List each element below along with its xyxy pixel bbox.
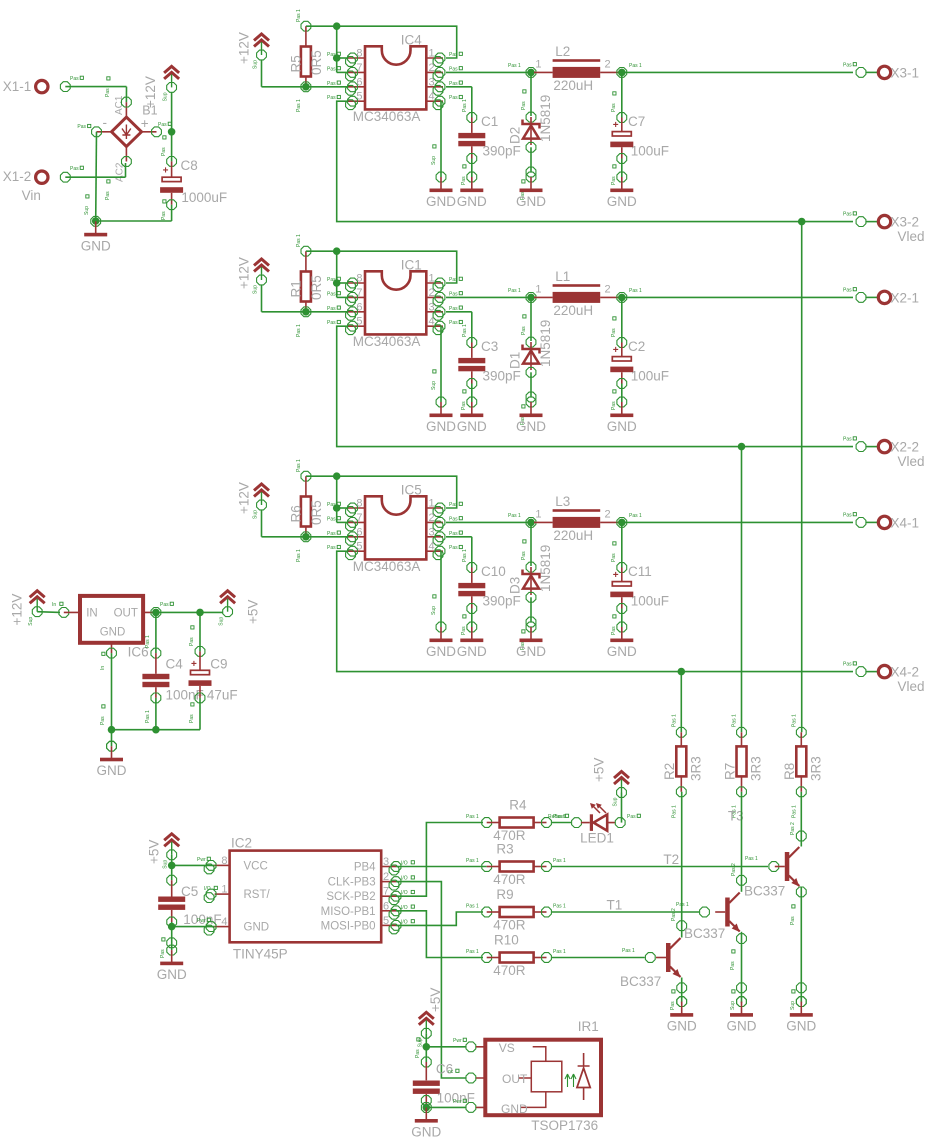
pin circle IC6 IN	[59, 608, 69, 618]
resistor R1	[301, 272, 311, 302]
svg-text:X3-2: X3-2	[891, 215, 920, 230]
svg-text:L3: L3	[555, 494, 570, 509]
svg-text:Pas: Pas	[611, 553, 617, 562]
wire gnd across	[96, 220, 172, 222]
svg-text:Pas: Pas	[449, 502, 458, 508]
pin circle D1 cathode	[526, 337, 536, 347]
pin circle B1 AC2	[122, 157, 132, 167]
svg-text:D2: D2	[508, 127, 523, 144]
svg-text:+12V: +12V	[10, 594, 25, 626]
svg-text:C3: C3	[481, 339, 498, 354]
svg-text:D3: D3	[508, 577, 523, 594]
svg-text:4: 4	[429, 541, 435, 553]
svg-text:GND: GND	[457, 419, 487, 434]
svg-text:Pwr: Pwr	[453, 1038, 462, 1044]
supply arrow +12V IC5 block	[253, 484, 270, 519]
svg-text:Pas: Pas	[100, 716, 106, 725]
resistor R5	[301, 47, 311, 77]
svg-text:Pas: Pas	[843, 437, 852, 443]
junction VS node	[423, 1043, 431, 1051]
wire OUT to +5V	[156, 611, 223, 613]
svg-text:Pas 1: Pas 1	[296, 324, 302, 337]
pin 8 of IC5	[348, 507, 365, 509]
transistor BC337 left	[656, 938, 681, 978]
svg-text:X3-1: X3-1	[891, 66, 920, 81]
ground pin4	[426, 397, 456, 434]
pin circle IC6 gnd symbol	[107, 741, 117, 751]
svg-text:Pas: Pas	[521, 101, 527, 110]
svg-text:2: 2	[605, 284, 611, 296]
svg-text:I/O: I/O	[401, 861, 408, 867]
svg-text:2: 2	[605, 59, 611, 71]
svg-text:Pas: Pas	[449, 545, 458, 551]
pin circle R2 bottom	[676, 787, 686, 797]
pin circle L3 pin2	[617, 518, 627, 528]
svg-text:Pas: Pas	[521, 326, 527, 335]
wire to VS	[426, 1046, 466, 1048]
svg-text:+5V: +5V	[246, 600, 261, 624]
svg-text:R3: R3	[496, 842, 513, 857]
pin circle C10 top	[467, 563, 477, 573]
diode D3 1N5819	[523, 567, 540, 595]
inductor L2	[534, 59, 619, 78]
svg-text:Pas: Pas	[790, 916, 796, 925]
connector pad X3-2	[878, 215, 890, 227]
pin circle emitter gnd middle 1	[737, 983, 747, 993]
pin circle R10 right	[542, 953, 552, 963]
pin 3 of IC2	[381, 866, 396, 868]
junction GND pin	[168, 923, 176, 931]
svg-text:Pas 1: Pas 1	[296, 459, 302, 472]
svg-text:Pas: Pas	[327, 66, 336, 72]
svg-text:ReBast: ReBast	[548, 814, 565, 820]
wire down to C1	[471, 87, 473, 118]
pin 3 of IC1	[426, 311, 443, 313]
svg-text:Pas 1: Pas 1	[296, 234, 302, 247]
resistor R8 3R3	[796, 746, 806, 776]
svg-text:R7: R7	[722, 763, 737, 780]
svg-text:Pas: Pas	[327, 545, 336, 551]
svg-text:Pas: Pas	[449, 531, 458, 537]
svg-text:Pas: Pas	[521, 551, 527, 560]
pin circle IR1 GND	[466, 1103, 476, 1113]
wire feedback pin5 to X3-2	[337, 101, 853, 221]
svg-text:Pas 1: Pas 1	[732, 714, 738, 727]
svg-text:5: 5	[383, 915, 389, 927]
pin circle C9 top	[195, 647, 205, 657]
pin circle X3-2	[856, 217, 866, 227]
svg-text:GND: GND	[157, 967, 187, 982]
svg-text:GND: GND	[457, 194, 487, 209]
svg-text:6: 6	[356, 301, 362, 313]
regulator IC6	[80, 596, 143, 643]
svg-text:Pas: Pas	[160, 602, 169, 608]
connector pad X1-1	[36, 80, 48, 92]
svg-text:GND: GND	[81, 238, 111, 253]
pin circle IC6 GND	[107, 648, 117, 658]
junction IC6 gnd rail	[108, 726, 116, 734]
wire collector up to R2	[681, 792, 683, 938]
pin circle base right	[769, 862, 779, 872]
junction IC6 OUT	[152, 609, 160, 617]
supply arrow +12V IC4 block	[253, 34, 270, 69]
transistor BC337 right	[775, 847, 800, 887]
svg-text:Pas 1: Pas 1	[145, 635, 151, 648]
pin circle emitter gnd middle 2	[737, 997, 747, 1007]
pin 8 of IC1	[348, 282, 365, 284]
wire R1 top to pin1	[306, 251, 457, 283]
pin circle emitter gnd right 2	[796, 997, 806, 1007]
wire feedback pin5 to X2-2	[337, 326, 853, 446]
svg-text:OUT: OUT	[502, 1072, 528, 1086]
junction VCC	[168, 862, 176, 870]
svg-text:GND: GND	[516, 644, 546, 659]
svg-text:In: In	[100, 666, 106, 670]
svg-text:R6: R6	[289, 505, 304, 522]
svg-text:2: 2	[605, 509, 611, 521]
svg-text:C1: C1	[481, 114, 498, 129]
svg-text:Pas 1: Pas 1	[466, 949, 479, 955]
svg-text:L2: L2	[555, 44, 570, 59]
wire to VCC	[172, 864, 215, 866]
svg-text:1N5819: 1N5819	[538, 545, 553, 592]
pin circle B1 AC1	[122, 97, 132, 107]
svg-text:Pas: Pas	[611, 176, 617, 185]
svg-text:C9: C9	[210, 657, 227, 672]
svg-text:Pas: Pas	[449, 516, 458, 522]
svg-text:MC34063A: MC34063A	[353, 559, 421, 574]
svg-text:I/O: I/O	[401, 890, 408, 896]
pin circle IR1 VS	[466, 1042, 476, 1052]
wire R5 top to pin1	[306, 26, 457, 58]
svg-text:+5V: +5V	[592, 758, 607, 782]
pin circle L3 pin1	[526, 518, 536, 528]
svg-text:1000uF: 1000uF	[181, 190, 227, 205]
diode D2 1N5819	[523, 117, 540, 145]
svg-text:2: 2	[429, 287, 435, 299]
wire pin4 to gnd	[440, 326, 442, 402]
svg-text:5: 5	[356, 316, 362, 328]
wire to pin 7	[337, 521, 348, 523]
resistor R9 470R	[500, 907, 534, 917]
svg-text:Pas 2: Pas 2	[790, 822, 796, 835]
ground D3	[516, 622, 546, 659]
wire L1 to X2-1	[622, 296, 853, 298]
svg-text:Pas 1: Pas 1	[791, 805, 797, 818]
svg-text:X1-2: X1-2	[3, 169, 32, 184]
capacitor C6	[413, 1081, 440, 1094]
pin circle C2 bottom	[617, 379, 627, 389]
pin circle LED1 cathode	[572, 818, 582, 828]
pin 7 of IC1	[348, 296, 365, 298]
svg-text:C2: C2	[628, 339, 645, 354]
wire C1 to gnd	[471, 159, 473, 178]
supply arrow +5V IC2	[163, 834, 180, 869]
wire CLK-PB3 to IR1 OUT	[396, 882, 466, 1078]
wire to pad X4-2	[866, 671, 878, 673]
capacitor C3	[458, 358, 485, 371]
pin 7 of IC5	[348, 521, 365, 523]
svg-text:I/O: I/O	[401, 876, 408, 882]
svg-text:Pas 1: Pas 1	[629, 63, 642, 69]
lead R7 top	[741, 732, 743, 746]
svg-text:+: +	[141, 116, 149, 131]
junction pin 8	[333, 54, 341, 62]
lead C9 bottom	[199, 686, 201, 698]
pin circle R6 bottom	[301, 532, 311, 542]
svg-text:Pas: Pas	[449, 95, 458, 101]
svg-text:7: 7	[356, 512, 362, 524]
svg-text:1: 1	[535, 59, 541, 71]
svg-text:X2-2: X2-2	[891, 440, 920, 455]
svg-text:0R5: 0R5	[309, 275, 324, 300]
wire +12V to pin6 IC5	[262, 536, 348, 538]
lead C2 top	[621, 343, 623, 357]
wire down to C8	[171, 132, 173, 162]
svg-text:I/O: I/O	[401, 905, 408, 911]
svg-text:1: 1	[535, 284, 541, 296]
svg-text:X1-1: X1-1	[3, 79, 32, 94]
wire down to gnd symbol	[171, 927, 173, 951]
svg-text:3R3: 3R3	[809, 756, 824, 781]
resistor R2 3R3	[676, 746, 686, 776]
svg-text:1: 1	[535, 509, 541, 521]
wire PB4 to R3	[396, 866, 487, 868]
IC IC2 TINY45P	[230, 851, 382, 943]
svg-text:Pwr: Pwr	[453, 1099, 462, 1105]
svg-text:Pas 1: Pas 1	[671, 805, 677, 818]
svg-text:100uF: 100uF	[631, 594, 669, 609]
pin 2 of IC2	[381, 881, 396, 883]
svg-text:Vled: Vled	[898, 454, 925, 469]
svg-text:Pas 1: Pas 1	[466, 814, 479, 820]
wire +12V to bridge plus	[171, 92, 173, 132]
svg-text:Pas 1: Pas 1	[553, 949, 566, 955]
svg-text:Pas 1: Pas 1	[145, 710, 151, 723]
wire L3 to X4-1	[622, 521, 853, 523]
svg-text:Pas 1: Pas 1	[791, 714, 797, 727]
svg-text:Pas 1: Pas 1	[676, 902, 689, 908]
svg-text:Pas 1: Pas 1	[553, 904, 566, 910]
supply arrow +12V bridge	[163, 66, 180, 101]
svg-text:Pas 1: Pas 1	[466, 904, 479, 910]
svg-text:Pas 1: Pas 1	[296, 99, 302, 112]
svg-text:Pas: Pas	[611, 626, 617, 635]
pin 4 of IC4	[426, 100, 443, 102]
resistor R3 470R	[500, 862, 534, 872]
pin circle R1 bottom	[301, 307, 311, 317]
svg-text:Pas 1: Pas 1	[508, 513, 521, 519]
pin circle C3 bottom	[467, 379, 477, 389]
pin circle X4-1	[856, 518, 866, 528]
wire +12V to pin6 IC4	[262, 86, 348, 88]
connector pad X3-1	[878, 66, 890, 78]
junction R5 bottom	[302, 83, 310, 91]
wire X3-2 net down to R8	[801, 222, 803, 733]
junction L3 pin1	[527, 519, 535, 527]
pin circle X2-1	[856, 293, 866, 303]
svg-text:390pF: 390pF	[483, 594, 521, 609]
svg-text:IR1: IR1	[578, 1019, 599, 1034]
pin 5 of IC4	[348, 100, 365, 102]
pin circle C5 top	[167, 875, 177, 885]
svg-text:6: 6	[356, 526, 362, 538]
svg-text:IC4: IC4	[401, 33, 423, 48]
diode D1 1N5819	[523, 342, 540, 370]
pin circle C8 bottom	[167, 200, 177, 210]
wire down to C4	[155, 612, 157, 653]
svg-text:2: 2	[383, 871, 389, 883]
wire up to AC2	[125, 163, 127, 177]
pin circle emitter gnd right 1	[796, 983, 806, 993]
svg-text:Pas 1: Pas 1	[629, 288, 642, 294]
svg-text:R9: R9	[496, 887, 513, 902]
svg-text:GND: GND	[426, 419, 456, 434]
svg-text:Pas: Pas	[449, 66, 458, 72]
svg-text:Pas: Pas	[327, 320, 336, 326]
svg-text:+: +	[613, 345, 619, 356]
svg-text:2: 2	[429, 512, 435, 524]
wire +12V down IC5	[261, 510, 263, 537]
svg-text:8: 8	[356, 498, 362, 510]
svg-text:Sup: Sup	[790, 1001, 796, 1010]
pin circle C6 bottom	[421, 1096, 431, 1106]
lead R7 bottom	[741, 776, 743, 792]
ground D1	[516, 397, 546, 434]
svg-text:L1: L1	[555, 269, 570, 284]
wire R6 top to pin1	[306, 476, 457, 508]
wire to pin 8	[337, 57, 348, 59]
svg-text:4: 4	[221, 916, 227, 928]
pin circle R4 right	[542, 818, 552, 828]
lead C1 top	[471, 118, 473, 133]
wire collector up to R8	[800, 792, 802, 847]
lead R1 top	[305, 251, 307, 271]
ground IC6	[97, 741, 127, 778]
lead R2 bottom	[680, 776, 682, 792]
wire to pad X3-1	[866, 71, 878, 73]
svg-text:470R: 470R	[493, 872, 526, 887]
svg-text:Pas: Pas	[415, 1049, 421, 1058]
wire C10 to gnd	[471, 609, 473, 628]
wire down to gnd symbol	[425, 1107, 427, 1112]
svg-text:3: 3	[429, 76, 435, 88]
svg-text:3: 3	[429, 526, 435, 538]
wire C8 to gnd rail	[171, 205, 173, 221]
svg-text:T1: T1	[607, 898, 623, 913]
svg-text:C4: C4	[166, 657, 184, 672]
wire +5V to LED1 anode	[621, 793, 623, 823]
ground C11	[607, 622, 637, 659]
pin circle LED1 anode	[615, 818, 625, 828]
svg-text:6: 6	[356, 76, 362, 88]
svg-text:Pas: Pas	[843, 662, 852, 668]
lead R5 top	[305, 26, 307, 46]
svg-text:Sup: Sup	[84, 206, 90, 215]
connector pad X2-2	[878, 440, 890, 452]
pin 5 of IC5	[348, 550, 365, 552]
svg-text:Pas 1: Pas 1	[462, 99, 468, 112]
pin circle R8 bottom	[796, 787, 806, 797]
pin circle D3 gnd wire	[526, 617, 536, 627]
wire R4 to LED1	[552, 822, 571, 824]
wire pin3 to C10	[446, 536, 472, 538]
junction pin 8	[333, 279, 341, 287]
wire down to C6	[425, 1047, 427, 1062]
pin circle R2 top	[676, 727, 686, 737]
pin circle collector right	[796, 831, 806, 841]
svg-text:0R5: 0R5	[309, 50, 324, 75]
lead R10 left	[487, 957, 500, 959]
lead R6 top	[305, 476, 307, 496]
capacitor C5	[158, 897, 185, 910]
pin 1 of IC5	[426, 507, 443, 509]
wire pin3 to C1	[446, 86, 472, 88]
wire C11 to gnd	[621, 609, 623, 628]
svg-text:Vled: Vled	[898, 679, 925, 694]
pin 3 of IC5	[426, 536, 443, 538]
svg-text:Pas 1: Pas 1	[671, 714, 677, 727]
lead R10 right	[534, 957, 547, 959]
wire to pin 7	[337, 296, 348, 298]
svg-text:Pas: Pas	[843, 62, 852, 68]
pin circle IC6 OUT	[151, 608, 161, 618]
capacitor C7	[610, 120, 633, 147]
pin circle D3 anode	[526, 592, 536, 602]
svg-text:+: +	[191, 659, 197, 670]
capacitor C8	[160, 166, 183, 193]
ground C2	[607, 397, 637, 434]
lead R5 bottom	[305, 77, 307, 87]
wire X1-2 to bridge	[65, 176, 125, 178]
svg-text:C5: C5	[181, 884, 198, 899]
svg-text:4: 4	[429, 91, 435, 103]
pin circle L1 pin2	[617, 293, 627, 303]
pin 1 of IC4	[426, 57, 443, 59]
svg-text:Pas 1: Pas 1	[508, 288, 521, 294]
pin circle X1-2	[60, 172, 70, 182]
capacitor C9	[189, 659, 212, 686]
pin circle D3 cathode	[526, 562, 536, 572]
resistor R7 3R3	[737, 746, 747, 776]
pin circle collector middle	[737, 875, 747, 885]
svg-text:390pF: 390pF	[483, 144, 521, 159]
svg-text:MISO-PB1: MISO-PB1	[321, 906, 376, 918]
svg-text:Pas: Pas	[327, 52, 336, 58]
pin circle R10 left	[482, 953, 492, 963]
pin circle collector left	[677, 921, 687, 931]
wire pin2 to inductor L2	[446, 71, 528, 73]
svg-text:Pas: Pas	[327, 516, 336, 522]
resistor R10 470R	[500, 953, 534, 963]
svg-text:7: 7	[383, 886, 389, 898]
wire MISO-PB1 to R10	[396, 911, 483, 958]
lead R1 bottom	[305, 302, 307, 312]
svg-text:D1: D1	[508, 352, 523, 369]
svg-text:Pas 2: Pas 2	[731, 863, 737, 876]
bridge rectifier B1	[97, 102, 157, 161]
svg-text:CLK-PB3: CLK-PB3	[328, 877, 376, 889]
svg-text:C10: C10	[481, 564, 506, 579]
svg-text:1N5819: 1N5819	[538, 320, 553, 367]
wire to IR1 GND	[426, 1106, 466, 1108]
svg-text:MC34063A: MC34063A	[353, 109, 421, 124]
svg-text:T2: T2	[663, 852, 679, 867]
pin circle R7 top	[737, 727, 747, 737]
junction L1 pin2	[618, 294, 626, 302]
junction bridge plus	[168, 128, 176, 136]
svg-text:1: 1	[221, 884, 227, 896]
